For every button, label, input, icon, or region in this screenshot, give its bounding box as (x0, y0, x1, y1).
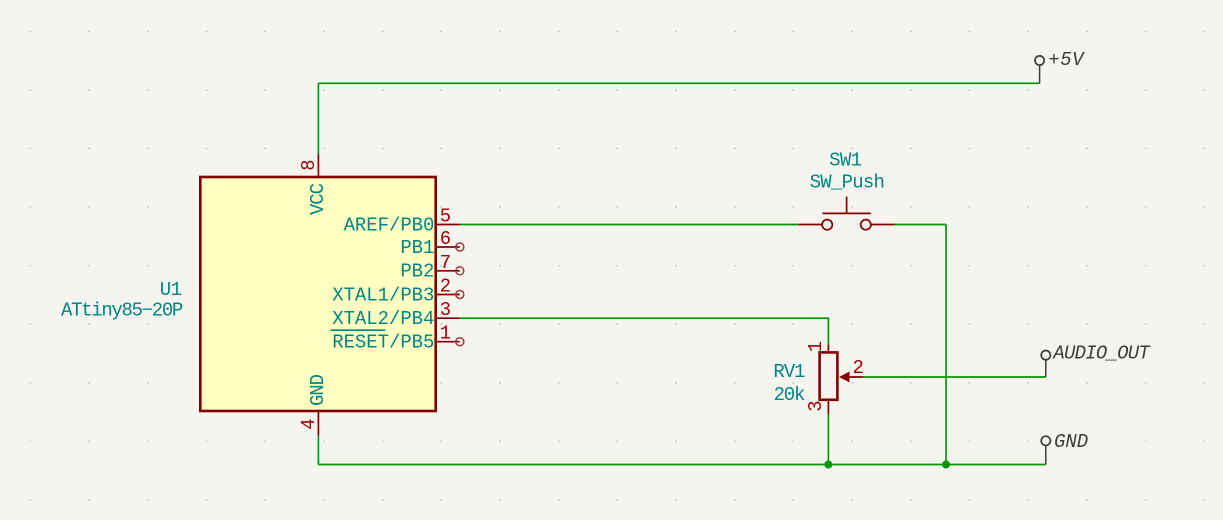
svg-text:GND: GND (1054, 431, 1088, 453)
svg-text:2: 2 (440, 276, 451, 298)
svg-text:XTAL2/PB4: XTAL2/PB4 (332, 308, 434, 330)
pin 4 GND (317, 411, 319, 436)
SW1 actuator bar (822, 212, 870, 214)
wire AREF/PB0 to SW1 (460, 224, 799, 226)
svg-text:4: 4 (298, 419, 320, 430)
label +5V stub (1039, 65, 1041, 83)
pin 6 PB1 (436, 246, 460, 248)
wire RV1 bottom to ground rail (827, 414, 829, 465)
svg-text:PB2: PB2 (400, 261, 434, 283)
SW1 actuator stem (846, 197, 848, 214)
svg-text:5: 5 (440, 205, 451, 227)
label +5V circle (1035, 56, 1044, 65)
SW1 right pin (871, 224, 894, 226)
wire pin 4 to ground rail (317, 436, 319, 465)
svg-text:+5V: +5V (1048, 49, 1085, 71)
svg-text:3: 3 (440, 299, 451, 321)
SW1 left pin (799, 224, 823, 226)
wire ground rail (318, 464, 1045, 466)
pin 5 AREF/PB0 (436, 224, 460, 226)
label AUDIO_OUT stub (1045, 360, 1047, 377)
wire +5V horizontal top (318, 82, 1039, 84)
pin 3 XTAL2/PB4 (436, 317, 460, 319)
svg-text:20k: 20k (774, 384, 805, 406)
wire SW1 right (895, 224, 947, 226)
svg-text:RESET/PB5: RESET/PB5 (332, 332, 434, 354)
RV1 wiper arrow (839, 372, 850, 383)
svg-text:RV1: RV1 (773, 361, 805, 383)
potentiometer RV1 body (820, 352, 838, 399)
RV1 pin 1 (top) (827, 344, 829, 352)
svg-text:8: 8 (298, 160, 320, 171)
svg-text:VCC: VCC (307, 183, 329, 215)
svg-text:SW_Push: SW_Push (810, 172, 884, 194)
wire XTAL2/PB4 to RV1 (460, 318, 829, 344)
svg-text:ATtiny85−20P: ATtiny85−20P (61, 299, 183, 321)
svg-text:U1: U1 (160, 279, 182, 301)
svg-text:2: 2 (853, 357, 864, 379)
label AUDIO_OUT circle (1041, 351, 1050, 360)
svg-text:PB1: PB1 (400, 237, 434, 259)
svg-text:7: 7 (440, 252, 451, 274)
pin 1 RESET/PB5 (436, 341, 460, 343)
svg-text:6: 6 (440, 228, 451, 250)
wire +5V vertical to pin 8 (317, 83, 319, 154)
pin 7 PB2 (436, 270, 460, 272)
wire RV1 wiper to AUDIO_OUT (864, 376, 1046, 378)
SW1 right contact circle (861, 220, 871, 230)
svg-text:SW1: SW1 (829, 149, 862, 171)
wire SW1 down to ground rail (945, 225, 947, 465)
svg-text:XTAL1/PB3: XTAL1/PB3 (332, 284, 434, 306)
SW1 left contact circle (822, 220, 832, 230)
RV1 wiper pin line (850, 376, 864, 378)
svg-text:AUDIO_OUT: AUDIO_OUT (1052, 342, 1151, 364)
junction at SW1 / ground rail (942, 461, 950, 469)
pin 8 VCC (317, 154, 319, 177)
RESET overline (331, 329, 386, 331)
junction at RV1 / ground rail (824, 461, 832, 469)
RV1 pin 3 (bottom) (827, 400, 829, 414)
svg-text:GND: GND (307, 374, 329, 406)
label GND stub (1045, 445, 1047, 464)
IC U1 body (200, 177, 435, 411)
svg-text:1: 1 (805, 341, 827, 352)
label GND circle (1041, 436, 1050, 445)
svg-text:1: 1 (440, 323, 451, 345)
svg-text:3: 3 (805, 401, 827, 412)
pin 2 XTAL1/PB3 (436, 294, 460, 296)
svg-text:AREF/PB0: AREF/PB0 (344, 214, 435, 236)
